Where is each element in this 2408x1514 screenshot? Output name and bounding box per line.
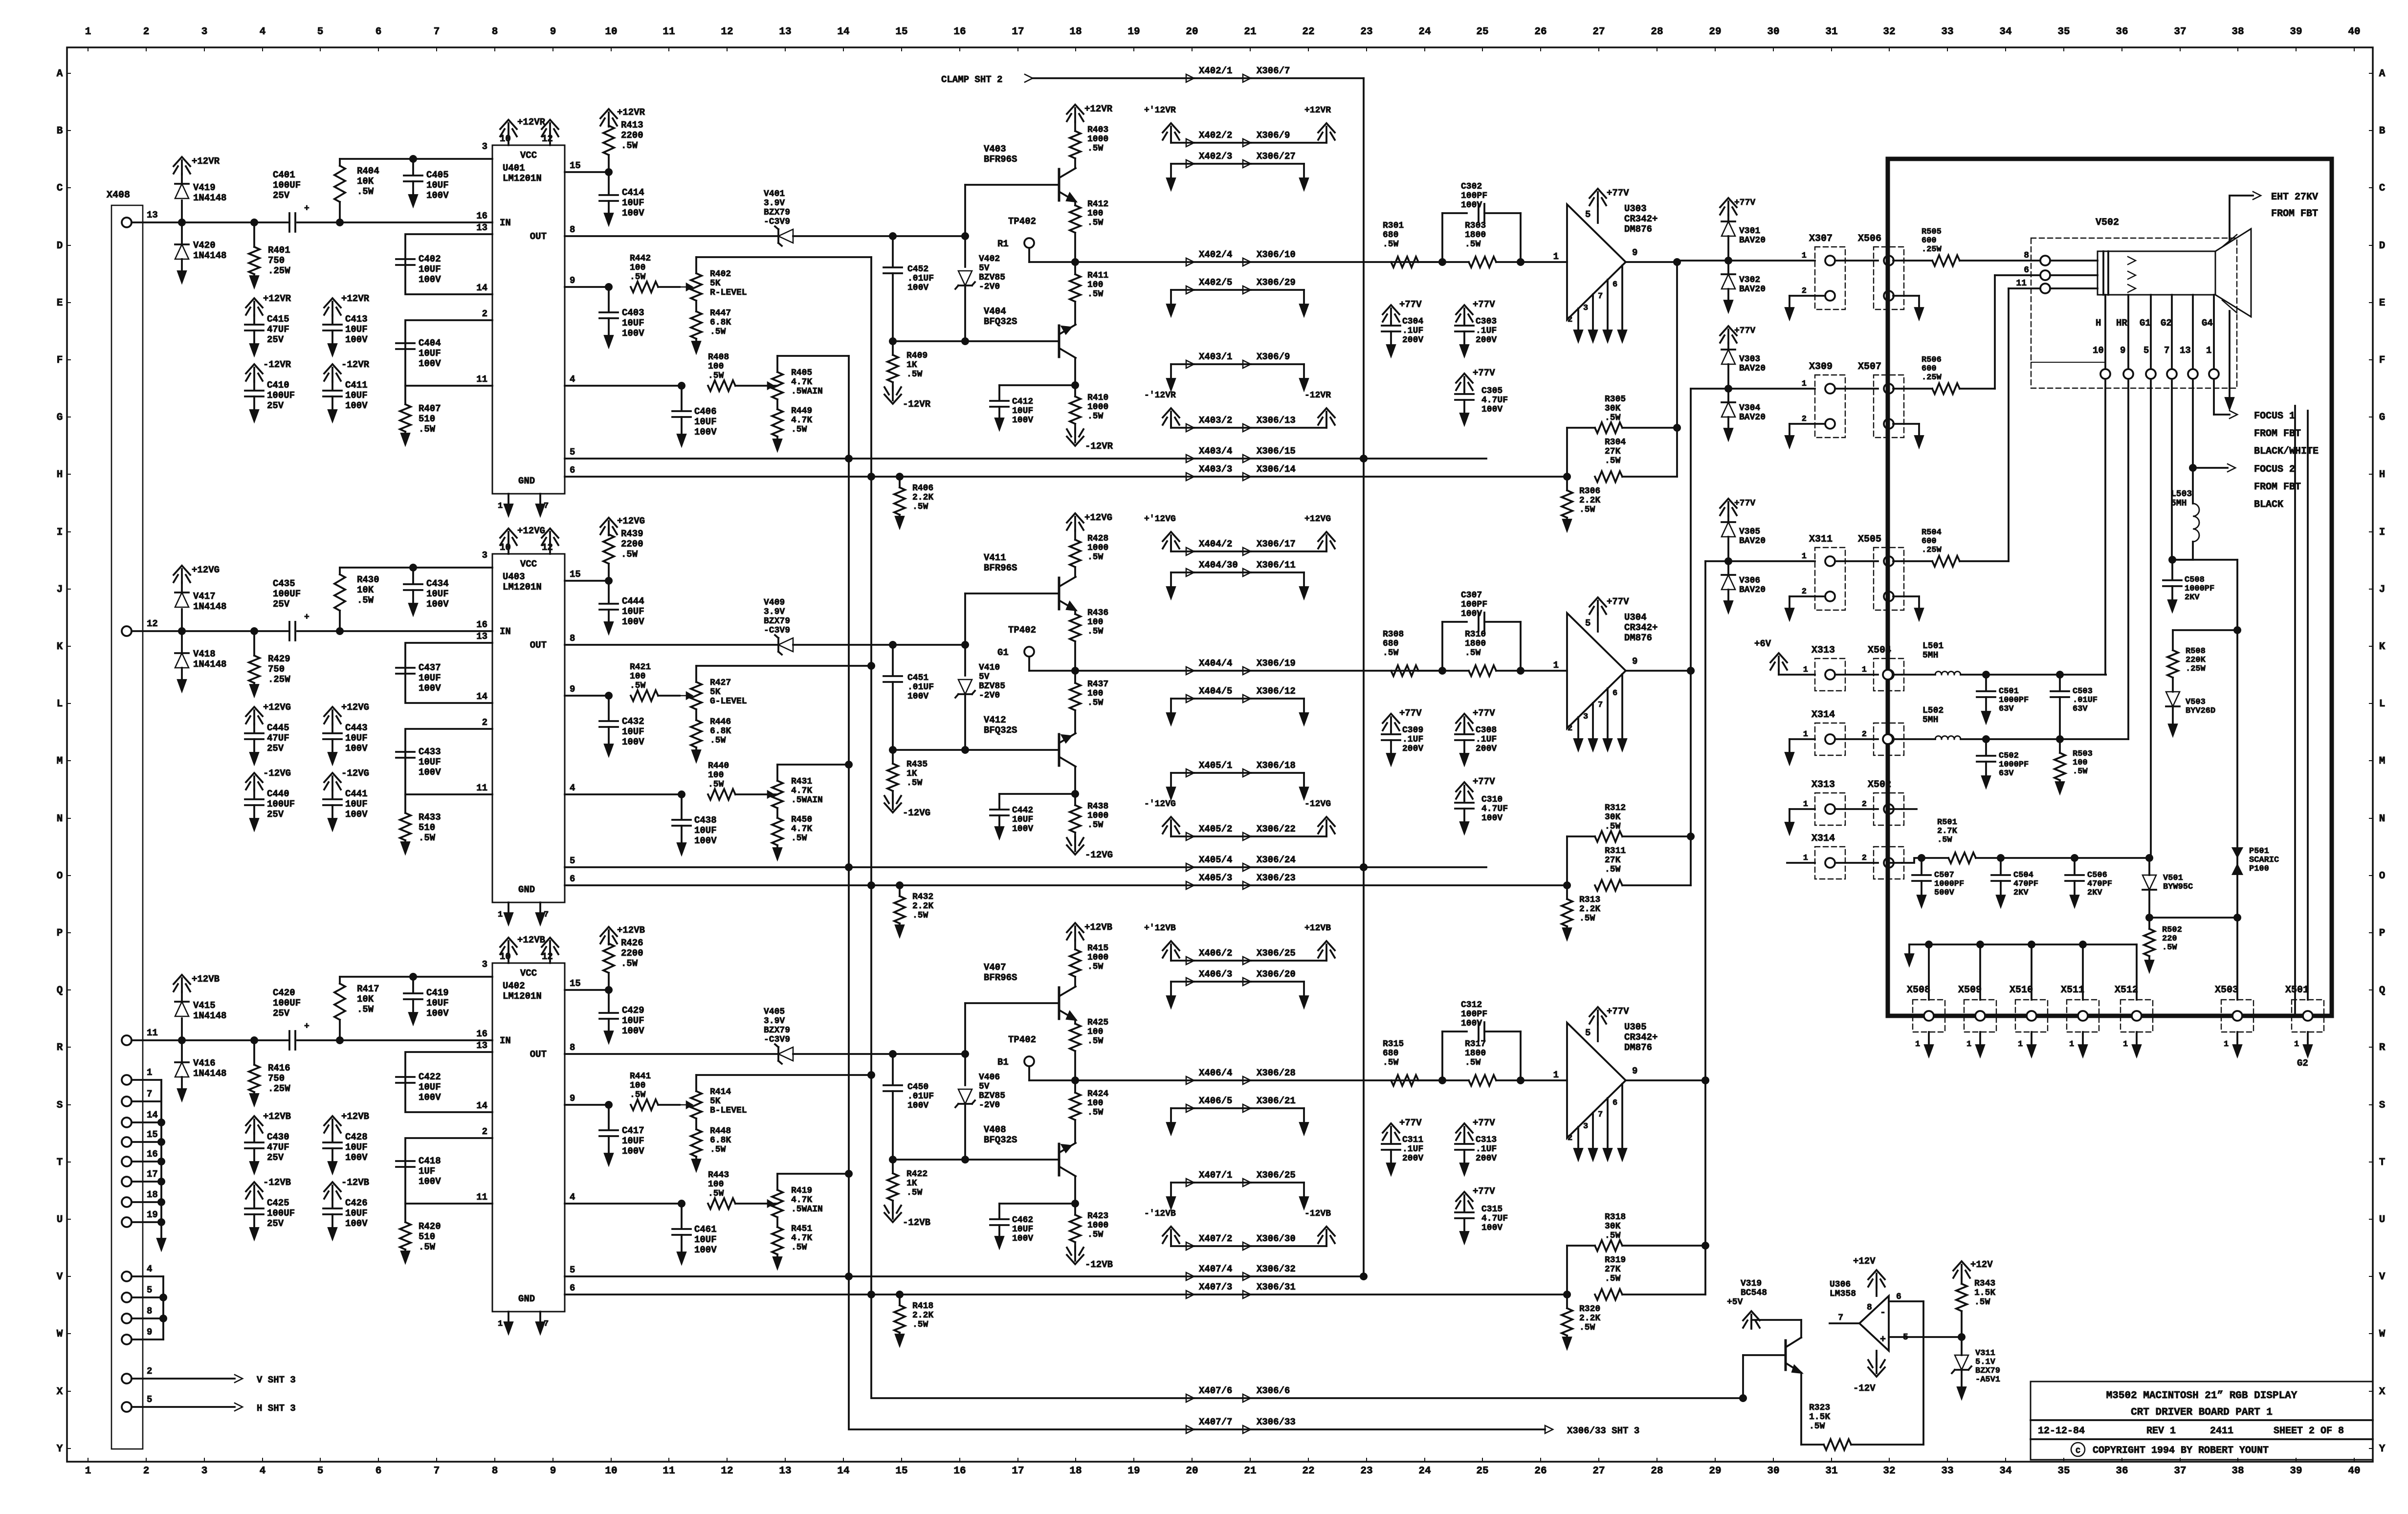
svg-text:+77V: +77V xyxy=(1473,1118,1495,1128)
svg-text:V412: V412 xyxy=(984,715,1006,725)
svg-text:+'12VG: +'12VG xyxy=(1144,514,1176,524)
svg-text:100V: 100V xyxy=(419,1092,441,1103)
svg-text:9: 9 xyxy=(1632,247,1637,258)
svg-text:1N4148: 1N4148 xyxy=(193,1068,226,1079)
svg-text:BAV20: BAV20 xyxy=(1739,236,1766,245)
svg-text:100V: 100V xyxy=(622,1026,644,1036)
svg-text:GND: GND xyxy=(518,884,535,895)
capacitor C430 47UF 25V xyxy=(245,1111,291,1173)
resistor R313 2.2K .5W xyxy=(1562,885,1600,939)
svg-text:100V: 100V xyxy=(1481,1223,1502,1233)
capacitor C412 10UF 100V xyxy=(990,385,1075,429)
power +12VG at V417 xyxy=(174,565,220,583)
capacitor C302 100PF 100V xyxy=(1438,182,1521,266)
wire V319 base xyxy=(1742,1397,1744,1399)
resistor R438 1000 .5W xyxy=(1067,794,1113,860)
svg-text:1000: 1000 xyxy=(1087,953,1108,963)
svg-text:F: F xyxy=(57,355,63,366)
svg-text:V409: V409 xyxy=(764,598,785,608)
svg-text:100UF: 100UF xyxy=(273,589,301,599)
svg-text:X405/2: X405/2 xyxy=(1199,824,1232,834)
svg-text:.5W: .5W xyxy=(906,778,923,788)
diode V419 1N4148 xyxy=(175,174,189,226)
svg-text:X403/2: X403/2 xyxy=(1199,415,1232,426)
svg-text:.25W: .25W xyxy=(268,674,290,685)
wire gain bus xyxy=(849,356,1194,1429)
svg-text:C302: C302 xyxy=(1461,182,1482,192)
svg-text:1800: 1800 xyxy=(1465,1049,1486,1058)
svg-text:15: 15 xyxy=(570,569,581,580)
svg-text:TP402: TP402 xyxy=(1008,216,1036,227)
svg-text:30K: 30K xyxy=(1605,812,1621,822)
power +12VB at V415 xyxy=(174,974,220,992)
svg-text:9: 9 xyxy=(1632,656,1637,667)
svg-text:15: 15 xyxy=(570,978,581,989)
capacitor C445 47UF 25V xyxy=(245,702,291,764)
svg-text:1: 1 xyxy=(1803,665,1808,675)
svg-text:X306/12: X306/12 xyxy=(1257,686,1296,697)
svg-text:5V: 5V xyxy=(979,672,990,682)
svg-text:2: 2 xyxy=(1568,724,1572,733)
svg-text:X404/2: X404/2 xyxy=(1199,539,1232,549)
svg-text:X510: X510 xyxy=(2010,985,2033,996)
svg-text:4.7K: 4.7K xyxy=(791,377,812,387)
svg-text:2: 2 xyxy=(1802,587,1807,596)
diode V401 BZX79-C3V9 xyxy=(764,189,793,246)
svg-text:V419: V419 xyxy=(193,182,216,193)
capacitor C419 10UF 100V xyxy=(404,973,449,1024)
node title block xyxy=(2031,1382,2373,1460)
svg-text:R406: R406 xyxy=(912,483,933,493)
svg-text:.5W: .5W xyxy=(1974,1297,1990,1307)
svg-text:-12VR: -12VR xyxy=(263,359,291,370)
svg-text:100: 100 xyxy=(2073,758,2088,768)
svg-text:.5W: .5W xyxy=(708,371,724,381)
resistor R315 680 .5W xyxy=(1383,1039,1442,1086)
svg-text:100V: 100V xyxy=(419,1176,441,1187)
svg-text:R438: R438 xyxy=(1087,802,1108,812)
node TP402 test point G1 xyxy=(997,625,1075,671)
svg-text:23: 23 xyxy=(1360,26,1372,38)
svg-text:1: 1 xyxy=(2018,1040,2023,1049)
svg-text:V311: V311 xyxy=(1975,1349,1995,1358)
svg-text:X314: X314 xyxy=(1812,833,1835,844)
ground U402 pins 1 7 xyxy=(498,1312,549,1333)
svg-text:N: N xyxy=(57,813,63,825)
svg-text:10UF: 10UF xyxy=(622,726,644,737)
svg-text:2.7K: 2.7K xyxy=(1937,827,1958,836)
svg-text:600: 600 xyxy=(1922,236,1937,245)
svg-text:9: 9 xyxy=(550,1466,556,1477)
svg-text:C406: C406 xyxy=(694,406,717,417)
svg-text:C: C xyxy=(2379,183,2386,194)
svg-text:FROM FBT: FROM FBT xyxy=(2254,428,2301,439)
svg-text:5: 5 xyxy=(1585,618,1591,629)
capacitor C501 1000PF 63V xyxy=(1977,671,2060,723)
svg-text:7: 7 xyxy=(544,910,549,920)
svg-text:V415: V415 xyxy=(193,1000,216,1011)
resistor R408 100 .5W xyxy=(565,352,777,391)
svg-text:R401: R401 xyxy=(268,245,290,256)
svg-text:.1UF: .1UF xyxy=(1402,326,1423,336)
svg-text:-C3V9: -C3V9 xyxy=(764,217,790,227)
svg-text:17: 17 xyxy=(1012,26,1024,38)
svg-text:C441: C441 xyxy=(345,789,368,799)
svg-text:24: 24 xyxy=(1418,26,1431,38)
svg-text:21: 21 xyxy=(1244,1466,1256,1477)
svg-text:X306/31: X306/31 xyxy=(1257,1282,1296,1293)
svg-text:R304: R304 xyxy=(1605,438,1626,447)
svg-text:2KV: 2KV xyxy=(2013,888,2029,898)
svg-text:R408: R408 xyxy=(708,352,729,362)
svg-text:100UF: 100UF xyxy=(273,998,301,1009)
svg-text:27: 27 xyxy=(1592,26,1605,38)
svg-text:11: 11 xyxy=(476,374,487,385)
svg-text:100V: 100V xyxy=(345,334,368,345)
svg-text:D: D xyxy=(57,241,63,252)
svg-text:R412: R412 xyxy=(1087,199,1108,209)
resistor R508 220K .25W xyxy=(2167,630,2237,692)
svg-text:.5W: .5W xyxy=(912,911,928,921)
svg-text:V418: V418 xyxy=(193,649,216,659)
svg-text:100V: 100V xyxy=(345,1152,368,1163)
resistor R418 2.2K .5W xyxy=(894,1291,933,1345)
svg-text:100V: 100V xyxy=(426,1008,449,1019)
svg-text:BZV85: BZV85 xyxy=(979,273,1005,283)
svg-text:R315: R315 xyxy=(1383,1039,1404,1049)
svg-text:+77V: +77V xyxy=(1473,299,1495,310)
svg-text:10UF: 10UF xyxy=(345,1208,368,1219)
resistor R437 100 .5W xyxy=(1070,667,1108,733)
svg-text:10UF: 10UF xyxy=(694,417,717,427)
svg-text:C434: C434 xyxy=(426,578,449,589)
svg-text:R418: R418 xyxy=(912,1301,933,1311)
svg-text:X311: X311 xyxy=(1809,534,1833,545)
svg-text:GND: GND xyxy=(518,1294,535,1304)
svg-text:100V: 100V xyxy=(1461,1019,1482,1029)
svg-text:10: 10 xyxy=(605,1466,617,1477)
svg-text:15: 15 xyxy=(895,1466,907,1477)
svg-text:.5W: .5W xyxy=(630,681,646,691)
capacitor C406 10UF 100V xyxy=(672,386,717,445)
svg-text:X306/11: X306/11 xyxy=(1257,560,1296,570)
svg-text:3: 3 xyxy=(201,26,208,38)
svg-text:36: 36 xyxy=(2116,1466,2128,1477)
svg-text:34: 34 xyxy=(1999,1466,2011,1477)
svg-text:C404: C404 xyxy=(419,338,441,349)
svg-text:V303: V303 xyxy=(1739,354,1760,364)
svg-text:27K: 27K xyxy=(1605,856,1621,865)
svg-text:C308: C308 xyxy=(1476,725,1497,735)
wire B output to X311 xyxy=(1701,561,1709,1084)
svg-text:2: 2 xyxy=(482,308,487,319)
svg-text:R319: R319 xyxy=(1605,1255,1626,1265)
svg-text:C410: C410 xyxy=(267,380,289,391)
transistor V403 BFR96S xyxy=(984,144,1076,201)
svg-text:X306/7: X306/7 xyxy=(1257,66,1290,76)
resistor R312 30K .5W xyxy=(1563,803,1695,889)
svg-text:P100: P100 xyxy=(2249,864,2269,874)
capacitor C403 10UF 100V xyxy=(599,287,644,347)
svg-text:R504: R504 xyxy=(1922,528,1942,537)
svg-text:C452: C452 xyxy=(907,264,928,274)
capacitor C462 10UF 100V xyxy=(990,1204,1075,1248)
svg-text:+12VG: +12VG xyxy=(1084,512,1112,523)
svg-text:V306: V306 xyxy=(1739,576,1760,586)
svg-text:.1UF: .1UF xyxy=(1476,735,1497,745)
capacitor C443 10UF 100V xyxy=(323,702,369,764)
svg-text:-12VR: -12VR xyxy=(341,359,370,370)
svg-text:100V: 100V xyxy=(419,767,441,778)
svg-text:U304: U304 xyxy=(1624,612,1647,623)
svg-text:V403: V403 xyxy=(984,144,1006,154)
svg-text:VCC: VCC xyxy=(520,150,537,161)
svg-text:100V: 100V xyxy=(622,208,644,219)
svg-text:+12VB: +12VB xyxy=(617,925,645,936)
svg-text:25V: 25V xyxy=(267,334,284,345)
svg-text:2: 2 xyxy=(482,1126,487,1137)
svg-text:BYV26D: BYV26D xyxy=(2186,706,2215,716)
svg-text:36: 36 xyxy=(2116,26,2128,38)
svg-text:C506: C506 xyxy=(2087,871,2107,880)
node X405/1 X306/18 xyxy=(1167,760,1308,798)
svg-text:X406/2: X406/2 xyxy=(1199,948,1232,959)
svg-text:C432: C432 xyxy=(622,716,644,727)
svg-text:.25W: .25W xyxy=(268,1083,290,1094)
svg-text:4.7UF: 4.7UF xyxy=(1481,1214,1508,1224)
svg-text:M: M xyxy=(57,756,63,767)
svg-text:-2V0: -2V0 xyxy=(979,691,1000,701)
svg-text:31: 31 xyxy=(1825,26,1837,38)
svg-text:OUT: OUT xyxy=(530,231,547,242)
power +12VR collector V403 xyxy=(1067,104,1113,122)
svg-text:26: 26 xyxy=(1534,26,1546,38)
svg-text:.5W: .5W xyxy=(1087,412,1104,421)
svg-text:R419: R419 xyxy=(791,1186,812,1196)
svg-text:25V: 25V xyxy=(267,400,284,411)
svg-text:-: - xyxy=(1880,1307,1886,1318)
svg-text:+12VG: +12VG xyxy=(517,526,545,536)
op-amp U306 LM358 xyxy=(1830,1256,1966,1445)
svg-text:C445: C445 xyxy=(267,723,289,733)
svg-text:.5W: .5W xyxy=(1465,240,1481,249)
resistor R320 2.2K .5W xyxy=(1562,1295,1600,1348)
resistor R429 750 .25W xyxy=(249,627,290,696)
svg-text:-12VB: -12VB xyxy=(341,1177,369,1188)
svg-text:.5W: .5W xyxy=(1087,1036,1104,1046)
resistor R317 1800 .5W xyxy=(1442,1039,1567,1086)
svg-text:.5W: .5W xyxy=(419,1242,436,1252)
svg-text:R443: R443 xyxy=(708,1170,729,1180)
svg-text:C403: C403 xyxy=(622,307,644,318)
svg-text:14: 14 xyxy=(837,1466,849,1477)
svg-text:-C3V9: -C3V9 xyxy=(764,626,790,636)
svg-text:+77V: +77V xyxy=(1734,326,1755,336)
svg-text:+12VG: +12VG xyxy=(341,702,369,713)
svg-text:2.2K: 2.2K xyxy=(1579,904,1600,914)
op-amp U305 DM876 output amplifier xyxy=(1553,1006,1658,1160)
svg-text:R403: R403 xyxy=(1087,125,1108,135)
svg-text:100V: 100V xyxy=(907,283,928,293)
svg-text:9: 9 xyxy=(570,684,575,695)
svg-text:R436: R436 xyxy=(1087,608,1108,618)
svg-text:C315: C315 xyxy=(1481,1205,1502,1214)
wire output node xyxy=(1626,1076,1709,1084)
svg-text:.5W: .5W xyxy=(1465,1058,1481,1068)
svg-text:C402: C402 xyxy=(419,254,441,264)
svg-text:-A5V1: -A5V1 xyxy=(1975,1375,2000,1384)
diode V301 / diode V302 BAV20 clamp xyxy=(1720,198,1766,311)
svg-text:V: V xyxy=(57,1272,63,1283)
svg-text:X306/30: X306/30 xyxy=(1257,1233,1296,1244)
svg-text:.1UF: .1UF xyxy=(1476,1144,1497,1154)
resistor R303 1800 .5W xyxy=(1442,221,1567,267)
svg-text:6: 6 xyxy=(1896,1292,1901,1302)
svg-text:10UF: 10UF xyxy=(345,733,368,744)
svg-text:3.9V: 3.9V xyxy=(764,607,785,617)
svg-text:.5WAIN: .5WAIN xyxy=(791,1205,823,1214)
connector X506 xyxy=(1845,233,1904,309)
svg-text:18: 18 xyxy=(147,1189,158,1200)
svg-text:+6V: +6V xyxy=(1754,638,1771,649)
svg-text:R323: R323 xyxy=(1809,1403,1830,1413)
svg-text:X: X xyxy=(57,1386,63,1398)
svg-text:5.1V: 5.1V xyxy=(1975,1358,1996,1367)
svg-text:U: U xyxy=(57,1214,63,1226)
svg-text:C420: C420 xyxy=(273,987,295,998)
svg-text:1: 1 xyxy=(1803,730,1808,739)
svg-text:1K: 1K xyxy=(906,1179,917,1188)
connector X504 xyxy=(1845,645,1904,691)
svg-text:X306/21: X306/21 xyxy=(1257,1096,1296,1106)
diode V418 1N4148 xyxy=(175,591,226,691)
svg-text:-12VG: -12VG xyxy=(903,808,930,818)
svg-text:6: 6 xyxy=(376,26,382,38)
svg-text:8: 8 xyxy=(492,26,498,38)
svg-text:X402/5: X402/5 xyxy=(1199,277,1232,288)
svg-text:R451: R451 xyxy=(791,1224,812,1234)
svg-text:+12VG: +12VG xyxy=(617,516,645,527)
svg-text:X407/1: X407/1 xyxy=(1199,1170,1232,1181)
svg-text:R447: R447 xyxy=(710,308,731,318)
resistor R310 1800 .5W xyxy=(1442,630,1567,676)
connector X509 xyxy=(1958,944,1996,1056)
svg-text:FROM FBT: FROM FBT xyxy=(2254,482,2301,493)
svg-text:8: 8 xyxy=(2024,251,2029,261)
svg-text:100V: 100V xyxy=(622,328,644,339)
svg-text:BAV20: BAV20 xyxy=(1739,413,1766,422)
diode V416 1N4148 xyxy=(175,1000,226,1100)
svg-text:31: 31 xyxy=(1825,1466,1837,1477)
wire emitter node xyxy=(1071,358,1079,389)
svg-text:9: 9 xyxy=(147,1327,152,1338)
svg-text:10UF: 10UF xyxy=(622,1136,644,1146)
capacitor C435 100UF 25V xyxy=(273,578,309,640)
svg-text:R301: R301 xyxy=(1383,221,1404,231)
svg-text:L503: L503 xyxy=(2171,489,2192,499)
svg-text:BFR96S: BFR96S xyxy=(984,972,1017,983)
svg-text:+12VB: +12VB xyxy=(517,935,545,945)
svg-text:C430: C430 xyxy=(267,1132,289,1142)
svg-text:C443: C443 xyxy=(345,723,368,733)
svg-text:BZV85: BZV85 xyxy=(979,1091,1005,1101)
svg-text:L: L xyxy=(57,699,63,710)
svg-text:T: T xyxy=(2379,1157,2386,1168)
transistor V411 BFR96S xyxy=(984,552,1076,610)
svg-text:1: 1 xyxy=(1862,665,1867,675)
svg-text:C433: C433 xyxy=(419,746,441,757)
capacitor C411 10UF 100V xyxy=(323,359,370,421)
svg-text:1: 1 xyxy=(1802,379,1807,389)
svg-text:Q: Q xyxy=(2379,985,2386,996)
svg-text:1000: 1000 xyxy=(1087,811,1108,821)
svg-text:1K: 1K xyxy=(906,769,917,779)
svg-text:IN: IN xyxy=(500,1035,511,1046)
svg-text:1: 1 xyxy=(2224,1040,2229,1049)
svg-text:+'12VB: +'12VB xyxy=(1144,923,1176,933)
capacitor C313 .1UF 200V xyxy=(1455,1118,1497,1174)
svg-text:100V: 100V xyxy=(345,743,368,754)
svg-text:.5W: .5W xyxy=(630,272,646,282)
svg-text:5: 5 xyxy=(147,1394,152,1405)
svg-text:C405: C405 xyxy=(426,170,449,180)
svg-text:63V: 63V xyxy=(1999,769,2014,778)
svg-text:R442: R442 xyxy=(630,254,651,263)
connector X502 xyxy=(1845,779,1917,825)
svg-text:47UF: 47UF xyxy=(267,324,289,335)
connector X511 xyxy=(2061,944,2099,1056)
svg-text:10UF: 10UF xyxy=(419,673,441,683)
svg-text:1N4148: 1N4148 xyxy=(193,659,226,670)
svg-text:R449: R449 xyxy=(791,406,812,416)
wire spark bus xyxy=(2236,630,2238,918)
svg-text:5: 5 xyxy=(2143,345,2149,356)
svg-text:27: 27 xyxy=(1592,1466,1605,1477)
svg-text:BFQ32S: BFQ32S xyxy=(984,725,1017,736)
node V SHT 3 xyxy=(122,1366,296,1385)
svg-text:X503: X503 xyxy=(2215,985,2238,996)
svg-text:10UF: 10UF xyxy=(419,264,441,275)
capacitor C310 4.7UF 100V xyxy=(1455,776,1508,833)
svg-text:2: 2 xyxy=(147,1366,152,1377)
capacitor C440 100UF 25V xyxy=(245,768,295,830)
wire X311 pin2 gnd xyxy=(1786,596,1825,619)
svg-text:R427: R427 xyxy=(710,678,731,688)
wire X309 pin2 gnd xyxy=(1786,424,1825,447)
svg-text:+12VB: +12VB xyxy=(192,974,220,985)
svg-text:10K: 10K xyxy=(357,994,374,1005)
connector X313 second xyxy=(1786,779,1845,834)
svg-text:+12VG: +12VG xyxy=(1304,514,1331,524)
svg-text:28: 28 xyxy=(1651,1466,1663,1477)
node X404/30 X306/11 xyxy=(1167,560,1308,598)
svg-text:REV 1: REV 1 xyxy=(2146,1426,2176,1437)
svg-text:.5W: .5W xyxy=(1579,914,1595,923)
svg-text:C438: C438 xyxy=(694,815,717,826)
svg-text:40: 40 xyxy=(2348,1466,2360,1477)
capacitor C441 10UF 100V xyxy=(323,768,369,830)
svg-text:VCC: VCC xyxy=(520,968,537,979)
svg-text:X407/6: X407/6 xyxy=(1199,1385,1232,1396)
svg-text:100: 100 xyxy=(708,362,724,372)
svg-text:2.2K: 2.2K xyxy=(912,901,933,911)
svg-text:14: 14 xyxy=(476,283,487,293)
svg-text:1K: 1K xyxy=(906,360,917,370)
svg-text:R432: R432 xyxy=(912,892,933,902)
svg-text:.5W: .5W xyxy=(1087,820,1104,830)
svg-text:-12VB: -12VB xyxy=(263,1177,291,1188)
capacitor C414 10UF 100V xyxy=(599,172,644,224)
